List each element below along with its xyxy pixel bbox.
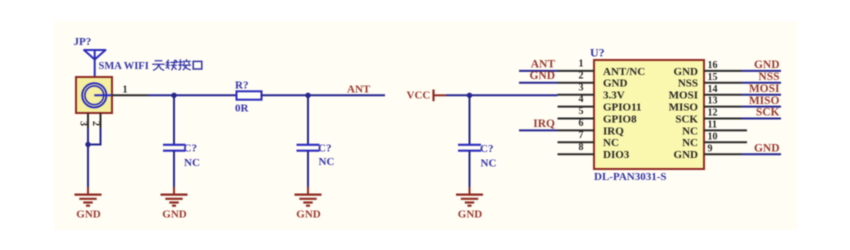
svg-text:6: 6 — [579, 118, 584, 129]
pin 12 SCK (U?) — [675, 108, 741, 126]
svg-text:15: 15 — [708, 72, 718, 83]
wire VCC to junction C3 — [446, 94, 470, 96]
svg-text:JP?: JP? — [74, 36, 92, 48]
svg-text:SMA WIFI: SMA WIFI — [99, 61, 149, 72]
svg-text:DIO3: DIO3 — [603, 149, 630, 161]
wire junction to capacitor C1 — [173, 95, 175, 144]
svg-text:MISO: MISO — [669, 102, 699, 114]
svg-text:SCK: SCK — [675, 113, 698, 125]
svg-text:NSS: NSS — [758, 71, 779, 83]
junction node C2 — [305, 93, 310, 98]
ground GND at SMA — [75, 187, 102, 221]
wire net IRQ to pin 6 — [519, 129, 558, 131]
svg-text:NC: NC — [682, 137, 698, 149]
junction node C3 — [467, 93, 472, 98]
svg-text:C?: C? — [184, 143, 197, 155]
svg-text:7: 7 — [579, 130, 584, 141]
pin 5 GPIO8 (U?) — [558, 106, 638, 125]
svg-text:VCC: VCC — [407, 89, 431, 101]
pin 13 MISO (U?) — [669, 96, 742, 114]
svg-text:ANT: ANT — [347, 83, 371, 95]
svg-text:ANT: ANT — [531, 58, 556, 70]
svg-text:GND: GND — [754, 59, 780, 71]
svg-text:GND: GND — [529, 70, 555, 82]
svg-text:NC: NC — [682, 125, 698, 137]
pin 3 SMA — [78, 113, 89, 129]
ground GND at C2 — [295, 187, 322, 221]
pin 2 GND (U?) — [558, 70, 628, 89]
wire net ANT to pin 1 — [519, 70, 558, 72]
wire net NSS to pin 15 — [742, 82, 782, 84]
wire antenna to SMA — [94, 60, 96, 96]
IC U? DL-PAN3031-S body — [594, 60, 704, 169]
svg-text:3.3V: 3.3V — [603, 90, 625, 102]
svg-text:9: 9 — [708, 143, 713, 154]
pin 1 ANT/NC (U?) — [558, 59, 646, 78]
wire net MOSI to pin 14 — [742, 94, 782, 96]
wire net GND to pin 16 — [742, 70, 782, 72]
pin 6 IRQ (U?) — [558, 118, 625, 137]
wire net GND to pin 2 — [519, 82, 558, 84]
svg-text:U?: U? — [590, 46, 605, 60]
wire SMA pin3 down to ground — [87, 128, 89, 188]
svg-text:IRQ: IRQ — [603, 125, 624, 137]
wire net SCK to pin 12 — [742, 118, 782, 120]
svg-text:GND: GND — [674, 66, 699, 78]
pin 4 GPIO11 (U?) — [558, 94, 642, 113]
wire junction to capacitor C2 — [307, 95, 309, 144]
power port VCC — [407, 89, 447, 101]
wire C1 to ground — [173, 151, 175, 188]
svg-text:NC: NC — [603, 137, 619, 149]
pin 2 SMA — [90, 113, 101, 129]
svg-text:10: 10 — [708, 131, 718, 142]
junction node C1 — [171, 93, 176, 98]
svg-text:SCK: SCK — [756, 107, 780, 119]
SMA connector body JP? — [76, 77, 112, 113]
pin 7 NC (U?) — [558, 130, 619, 149]
pin 8 DIO3 (U?) — [558, 142, 630, 161]
svg-text:5: 5 — [579, 106, 584, 117]
wire junction C3 to U? pin 3 — [470, 94, 558, 96]
svg-text:R?: R? — [235, 80, 248, 92]
svg-text:12: 12 — [708, 108, 718, 119]
svg-text:GND: GND — [603, 78, 628, 90]
ground GND at C1 — [161, 187, 188, 221]
antenna symbol JP? — [84, 50, 106, 60]
svg-text:16: 16 — [708, 60, 718, 71]
wire SMA pin2 to ground node — [88, 128, 101, 145]
svg-text:NC: NC — [481, 158, 497, 170]
svg-text:C?: C? — [480, 143, 493, 155]
svg-text:NSS: NSS — [678, 78, 698, 90]
wire net GND to pin 9 — [742, 153, 782, 155]
svg-text:MOSI: MOSI — [749, 83, 780, 95]
capacitor C? (C3) — [458, 145, 481, 151]
pin 10 NC (U?) — [682, 131, 747, 149]
svg-text:GND: GND — [674, 149, 699, 161]
label SMA WIFI 天线接口 — [99, 60, 202, 72]
svg-text:8: 8 — [579, 142, 584, 153]
svg-text:3: 3 — [78, 121, 89, 126]
svg-text:2: 2 — [579, 70, 584, 81]
pin 9 GND (U?) — [674, 143, 742, 161]
svg-text:2: 2 — [90, 121, 101, 126]
pin 1 SMA — [112, 85, 148, 96]
svg-text:GND: GND — [754, 142, 780, 154]
pin 3 3.3V (U?) — [558, 82, 625, 101]
svg-text:11: 11 — [708, 120, 717, 131]
svg-text:NC: NC — [319, 156, 335, 168]
wire SMA pin1 to resistor R? — [148, 94, 237, 96]
svg-text:1: 1 — [579, 59, 584, 70]
wire junction C2 to ANT end — [308, 94, 385, 96]
resistor R? — [237, 91, 262, 99]
svg-text:4: 4 — [579, 94, 584, 105]
pin 15 NSS (U?) — [678, 72, 742, 90]
junction SMA ground node — [85, 142, 90, 147]
wire R? to junction C2 — [262, 94, 309, 96]
wire junction to capacitor C3 — [469, 95, 471, 144]
wire net MISO to pin 13 — [742, 106, 782, 108]
svg-text:MISO: MISO — [749, 95, 780, 107]
svg-text:3: 3 — [579, 82, 584, 93]
svg-text:NC: NC — [184, 157, 200, 169]
wire C2 to ground — [307, 151, 309, 188]
svg-text:0R: 0R — [235, 102, 250, 114]
svg-text:C?: C? — [318, 143, 331, 155]
pin 11 NC (U?) — [682, 120, 747, 138]
capacitor C? (C2) — [297, 145, 320, 151]
wire C3 to ground — [469, 151, 471, 188]
svg-text:MOSI: MOSI — [669, 90, 698, 102]
pin 14 MOSI (U?) — [669, 84, 742, 102]
ground GND at C3 — [456, 187, 483, 221]
svg-text:1: 1 — [123, 85, 128, 96]
svg-text:GPIO11: GPIO11 — [603, 102, 642, 114]
svg-text:DL-PAN3031-S: DL-PAN3031-S — [594, 171, 667, 183]
svg-text:ANT/NC: ANT/NC — [603, 66, 645, 78]
svg-text:14: 14 — [708, 84, 718, 95]
svg-text:IRQ: IRQ — [533, 118, 555, 130]
svg-text:GPIO8: GPIO8 — [603, 113, 637, 125]
svg-text:13: 13 — [708, 96, 718, 107]
pin 16 GND (U?) — [674, 60, 742, 78]
capacitor C? (C1) — [163, 145, 186, 151]
